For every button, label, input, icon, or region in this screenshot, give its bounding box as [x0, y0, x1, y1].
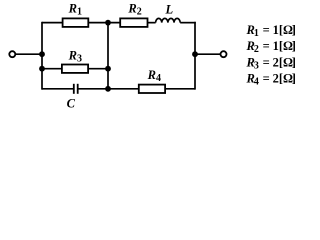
node junction dot (108,68.6) — [105, 66, 111, 72]
resistor R4 — [139, 85, 165, 93]
wire top rail between R2 and L — [148, 22, 156, 24]
svg-text:R1: R1 — [68, 2, 82, 18]
node junction dot A (42,54) — [39, 51, 45, 57]
wire top rail right of L — [180, 22, 196, 24]
wire R3 row right — [88, 68, 108, 70]
left terminal — [9, 51, 15, 57]
capacitor C — [74, 84, 78, 94]
node junction dot B (108,22.65) — [105, 20, 111, 26]
right terminal — [221, 51, 227, 57]
wire left vertical — [41, 22, 43, 90]
wire bottom row right of R4 — [165, 88, 195, 90]
wire R3 row left — [42, 68, 62, 70]
svg-text:R4: R4 — [147, 68, 161, 84]
wire bottom row left of C — [42, 88, 73, 90]
wire left terminal row — [16, 53, 42, 55]
resistor R2 — [120, 18, 147, 27]
resistor R1 — [63, 18, 89, 27]
wire top rail left stub — [42, 22, 63, 24]
node junction dot (195,54) — [192, 51, 198, 57]
svg-text:R3: R3 — [68, 48, 82, 64]
node junction dot (42,68.6) — [39, 66, 45, 72]
wire right vertical — [194, 22, 196, 90]
wire middle vertical — [107, 23, 109, 89]
inductor L — [156, 18, 181, 22]
resistor R3 — [62, 65, 88, 73]
svg-text:C: C — [67, 97, 76, 111]
svg-text:R3=2[Ω]: R3=2[Ω] — [246, 56, 296, 72]
node junction dot (108,88.9) — [105, 86, 111, 92]
svg-text:R2: R2 — [127, 2, 141, 18]
svg-text:R4=2[Ω]: R4=2[Ω] — [246, 72, 296, 88]
wire right terminal row — [195, 53, 220, 55]
svg-text:L: L — [165, 3, 174, 17]
svg-text:R1=1[Ω]: R1=1[Ω] — [246, 23, 296, 39]
wire bottom row C to mid node — [79, 88, 139, 90]
wire top rail between R1 and R2 — [88, 22, 120, 24]
svg-text:R2=1[Ω]: R2=1[Ω] — [246, 39, 296, 55]
